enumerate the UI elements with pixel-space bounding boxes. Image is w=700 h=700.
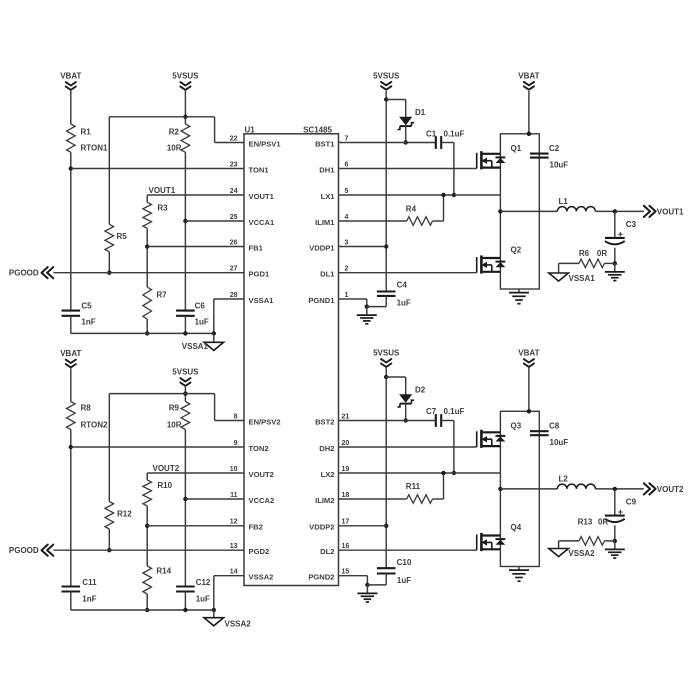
svg-text:RTON1: RTON1 — [81, 144, 109, 153]
svg-text:R5: R5 — [117, 232, 128, 241]
svg-text:DH1: DH1 — [319, 165, 335, 174]
svg-text:C10: C10 — [397, 558, 412, 567]
svg-text:R1: R1 — [81, 128, 92, 137]
svg-text:11: 11 — [230, 492, 238, 499]
svg-text:RTON2: RTON2 — [81, 421, 109, 430]
svg-text:R4: R4 — [406, 205, 417, 214]
svg-text:9: 9 — [234, 440, 238, 447]
svg-text:PGND2: PGND2 — [308, 573, 334, 582]
svg-text:VBAT: VBAT — [60, 72, 81, 81]
svg-text:5: 5 — [345, 188, 349, 195]
svg-text:ILIM2: ILIM2 — [315, 496, 334, 505]
svg-text:LX1: LX1 — [321, 192, 336, 201]
svg-text:D1: D1 — [415, 108, 426, 117]
svg-text:C9: C9 — [626, 498, 637, 507]
svg-text:VCCA2: VCCA2 — [249, 496, 275, 505]
svg-text:10R: 10R — [167, 421, 182, 430]
svg-text:C5: C5 — [81, 302, 92, 311]
svg-text:FB2: FB2 — [249, 523, 263, 532]
svg-text:28: 28 — [230, 292, 238, 299]
svg-text:TON1: TON1 — [249, 165, 270, 174]
svg-text:U1: U1 — [245, 125, 256, 134]
svg-text:15: 15 — [342, 569, 350, 576]
svg-text:DL1: DL1 — [320, 270, 335, 279]
svg-text:VDDP2: VDDP2 — [309, 523, 334, 532]
svg-text:VSSA2: VSSA2 — [568, 549, 595, 558]
svg-text:25: 25 — [230, 214, 238, 221]
svg-text:FB1: FB1 — [249, 243, 264, 252]
svg-text:L1: L1 — [559, 197, 569, 206]
svg-text:0R: 0R — [598, 518, 608, 527]
svg-text:3: 3 — [345, 239, 349, 246]
svg-text:LX2: LX2 — [321, 470, 335, 479]
svg-text:21: 21 — [342, 413, 350, 420]
svg-text:VDDP1: VDDP1 — [309, 243, 335, 252]
svg-text:16: 16 — [342, 543, 350, 550]
svg-text:C3: C3 — [626, 220, 637, 229]
svg-text:5VSUS: 5VSUS — [373, 349, 400, 358]
svg-text:R10: R10 — [157, 481, 172, 490]
svg-text:0.1uF: 0.1uF — [444, 130, 465, 139]
svg-text:VOUT1: VOUT1 — [249, 192, 275, 201]
svg-text:1uF: 1uF — [196, 595, 210, 604]
svg-text:VSSA1: VSSA1 — [182, 342, 209, 351]
svg-text:VSSA2: VSSA2 — [249, 573, 274, 582]
svg-text:20: 20 — [342, 440, 350, 447]
svg-text:R14: R14 — [156, 567, 171, 576]
svg-text:VOUT1: VOUT1 — [149, 186, 176, 195]
svg-text:C4: C4 — [397, 280, 408, 289]
svg-text:17: 17 — [342, 519, 350, 526]
svg-text:Q4: Q4 — [511, 523, 522, 532]
svg-text:10uF: 10uF — [550, 438, 569, 447]
svg-text:VCCA1: VCCA1 — [249, 218, 276, 227]
svg-text:VOUT2: VOUT2 — [249, 470, 274, 479]
svg-text:2: 2 — [345, 266, 349, 273]
svg-text:R2: R2 — [169, 128, 180, 137]
svg-text:6: 6 — [345, 161, 349, 168]
svg-text:R3: R3 — [157, 204, 168, 213]
svg-text:R12: R12 — [117, 510, 132, 519]
svg-text:5VSUS: 5VSUS — [373, 71, 400, 80]
svg-text:1uF: 1uF — [397, 576, 411, 585]
svg-text:10: 10 — [230, 466, 238, 473]
svg-text:R11: R11 — [406, 482, 421, 491]
svg-text:BST1: BST1 — [315, 139, 335, 148]
svg-text:14: 14 — [230, 569, 238, 576]
svg-text:5VSUS: 5VSUS — [172, 72, 199, 81]
svg-text:BST2: BST2 — [315, 417, 334, 426]
svg-text:D2: D2 — [415, 386, 426, 395]
svg-text:Q1: Q1 — [511, 144, 522, 153]
svg-text:0.1uF: 0.1uF — [444, 407, 465, 416]
svg-text:8: 8 — [234, 413, 238, 420]
svg-text:0R: 0R — [597, 249, 607, 258]
svg-text:DH2: DH2 — [319, 444, 334, 453]
svg-text:10R: 10R — [167, 144, 182, 153]
svg-text:PGOOD: PGOOD — [9, 546, 39, 555]
svg-text:1nF: 1nF — [81, 318, 95, 327]
svg-text:PGOOD: PGOOD — [9, 269, 39, 278]
svg-text:TON2: TON2 — [249, 444, 269, 453]
svg-text:ILIM1: ILIM1 — [315, 218, 335, 227]
svg-text:1uF: 1uF — [397, 299, 411, 308]
svg-text:Q2: Q2 — [511, 246, 522, 255]
svg-text:23: 23 — [230, 161, 238, 168]
svg-text:12: 12 — [230, 519, 238, 526]
svg-text:VOUT2: VOUT2 — [153, 464, 180, 473]
svg-text:C12: C12 — [196, 578, 211, 587]
svg-text:PGD1: PGD1 — [249, 270, 270, 279]
svg-text:C8: C8 — [549, 422, 560, 431]
svg-text:EN/PSV2: EN/PSV2 — [249, 417, 281, 426]
svg-text:C2: C2 — [549, 144, 560, 153]
svg-text:R13: R13 — [578, 518, 593, 527]
svg-text:27: 27 — [230, 266, 238, 273]
svg-text:Q3: Q3 — [511, 422, 522, 431]
svg-text:10uF: 10uF — [550, 160, 569, 169]
svg-text:1uF: 1uF — [195, 318, 209, 327]
svg-text:VBAT: VBAT — [60, 349, 81, 358]
svg-text:7: 7 — [345, 135, 349, 142]
svg-text:VOUT2: VOUT2 — [657, 485, 684, 494]
svg-text:SC1485: SC1485 — [303, 125, 332, 134]
svg-text:VSSA1: VSSA1 — [249, 296, 275, 305]
svg-text:C6: C6 — [195, 302, 206, 311]
svg-text:22: 22 — [230, 135, 238, 142]
svg-text:L2: L2 — [559, 475, 569, 484]
svg-text:VSSA1: VSSA1 — [569, 274, 596, 283]
svg-text:C7: C7 — [426, 407, 437, 416]
svg-text:PGND1: PGND1 — [308, 296, 335, 305]
svg-text:PGD2: PGD2 — [249, 547, 270, 556]
svg-text:24: 24 — [230, 188, 238, 195]
svg-text:VOUT1: VOUT1 — [657, 207, 684, 216]
svg-text:19: 19 — [342, 466, 350, 473]
svg-text:C1: C1 — [426, 130, 437, 139]
svg-text:EN/PSV1: EN/PSV1 — [249, 139, 282, 148]
svg-text:R7: R7 — [156, 291, 167, 300]
svg-text:DL2: DL2 — [320, 547, 334, 556]
svg-text:18: 18 — [342, 492, 350, 499]
svg-text:4: 4 — [345, 214, 349, 221]
svg-text:R6: R6 — [579, 249, 590, 258]
svg-text:26: 26 — [230, 239, 238, 246]
svg-text:5VSUS: 5VSUS — [172, 368, 199, 377]
svg-text:R8: R8 — [81, 404, 92, 413]
svg-text:1nF: 1nF — [82, 595, 96, 604]
svg-text:1: 1 — [345, 292, 349, 299]
svg-text:C11: C11 — [82, 578, 97, 587]
svg-text:R9: R9 — [169, 404, 180, 413]
svg-text:VBAT: VBAT — [518, 349, 539, 358]
svg-text:13: 13 — [230, 543, 238, 550]
svg-text:VBAT: VBAT — [518, 71, 539, 80]
svg-text:VSSA2: VSSA2 — [225, 619, 252, 628]
